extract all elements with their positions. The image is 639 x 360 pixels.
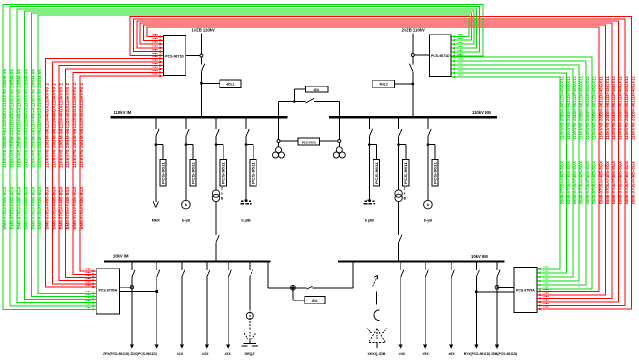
wire red RA4 (PCS-C to PCS-D comm fibre) — [140, 23, 612, 298]
wire arrows into box U3 (top-left) — [153, 35, 164, 78]
svg-text:110kV#8 28BM-9611D#48GX110kV#8: 110kV#8 28BM-9611D#48GX110kV#8 2 — [52, 82, 57, 168]
svg-text:BM8-9705A#485-8GX: BM8-9705A#485-8GX — [2, 186, 7, 229]
svg-text:110kV#8 28BM-9611D#48GX11: 110kV#8 28BM-9611D#48GX11 — [572, 75, 577, 140]
node PT2 (ring) — [338, 140, 341, 143]
svg-text:PCS-9671D: PCS-9671D — [165, 54, 184, 58]
svg-text:110kV#8 28BM-9611D#48GX110kV#8: 110kV#8 28BM-9611D#48GX110kV#8 28BM-96 — [9, 68, 14, 168]
svg-text:4DL: 4DL — [314, 88, 320, 92]
bus 110kV section I — [111, 116, 288, 118]
svg-text:110kV#8 28BM-9611D#48GX11: 110kV#8 28BM-9611D#48GX11 — [585, 75, 590, 140]
wire U1 to feeder L2 tap — [120, 291, 157, 293]
feeder bay F3 (x216, station transformer to 10kV bus I) — [215, 118, 217, 129]
cable name labels, left red bundle — [45, 82, 84, 229]
svg-text:110kV#8 28BM-9611D#48GX11: 110kV#8 28BM-9611D#48GX11 — [624, 75, 629, 140]
svg-text:BM8-9705A#485-8GX: BM8-9705A#485-8GX — [578, 161, 583, 204]
wire T2 bay riser — [412, 34, 414, 54]
svg-text:PCS-9705A: PCS-9705A — [516, 288, 535, 292]
svg-text:XHXQ JDB: XHXQ JDB — [368, 352, 386, 356]
wire node T2-a to breaker box 4DL2 — [394, 83, 412, 85]
protection device U2 (bottom-right PCS-9705A) — [514, 267, 537, 312]
svg-text:110kV#8 28BM-9611D#48GX110kV#8: 110kV#8 28BM-9611D#48GX110kV#8 28BM-96 — [16, 68, 21, 168]
bus 110kV section II — [329, 116, 497, 118]
protection device U4 (top-right PCS-9671D) — [429, 35, 451, 77]
node bridge-a — [293, 100, 296, 103]
feeder L1 x131.9 with disconnector and load arrow — [131, 263, 133, 270]
feeder bay F2 (x185.9, motor/PT circle) with disconnector, node, relay — [185, 118, 187, 129]
capacitor C1 fuse circle (dashed) — [246, 312, 253, 319]
svg-text:110kV#8 28BM-9611D#48GX110kV#8: 110kV#8 28BM-9611D#48GX110kV#8 28BM-96 — [24, 68, 29, 168]
wire red RA3 (PCS-C to PCS-D comm fibre) — [137, 21, 618, 302]
node tap L1 (ring) — [130, 286, 133, 289]
wire node T1-a to breaker box 4DL1 — [201, 82, 219, 84]
node tap R4 — [475, 290, 478, 293]
svg-text:PCS-9611: PCS-9611 — [404, 162, 408, 184]
svg-text:10kV IM: 10kV IM — [113, 253, 129, 258]
wire U2 to feeder R4 tap — [476, 291, 514, 293]
protection device U3 (top-left PCS-9671D) — [163, 36, 185, 76]
wire green GB4 (PCS-B to PCS-D comm fibre) — [451, 69, 573, 277]
capacitor bank feeder C1 (x249.8, dashed future) — [249, 263, 251, 270]
svg-text:110kV#8 28BM-9611D#48GX110kV#8: 110kV#8 28BM-9611D#48GX110kV#8 28BM-96 — [37, 68, 42, 168]
svg-text:110kV#8 28BM-9611D#48GX11: 110kV#8 28BM-9611D#48GX11 — [559, 75, 564, 140]
svg-text:110kV#8 28BM-9611D#48GX11: 110kV#8 28BM-9611D#48GX11 — [598, 75, 603, 140]
svg-text:BM8-9705A#485-8GX: BM8-9705A#485-8GX — [624, 161, 629, 204]
wire red RA1 (PCS-C to PCS-D comm fibre) — [130, 17, 631, 309]
svg-text:BM8-9705A#485-8GX: BM8-9705A#485-8GX — [24, 186, 29, 229]
svg-text:BM8-9705A#485-8GX: BM8-9705A#485-8GX — [79, 186, 84, 229]
grounding transformer GT (dashed triangle with rays) — [369, 329, 386, 343]
svg-text:BM8-9705A#485-8GX: BM8-9705A#485-8GX — [45, 186, 50, 229]
disconnector QSL (bus-tie) — [306, 98, 315, 103]
svg-text:110kV IM: 110kV IM — [114, 110, 132, 115]
wire node bridge-a to box 4DL0 — [293, 89, 295, 102]
svg-text:4DL1: 4DL1 — [226, 82, 234, 86]
svg-text:#6X: #6X — [448, 352, 455, 356]
svg-text:b-yB: b-yB — [182, 219, 191, 223]
svg-text:BM8-9705A#485-8GX: BM8-9705A#485-8GX — [52, 186, 57, 229]
svg-text:BM8-9705A#485-8GX: BM8-9705A#485-8GX — [72, 186, 77, 229]
node PT1 (ring) — [277, 140, 280, 143]
wire green GA3 (PCS-A to PCS-B comm fibre) — [17, 9, 477, 303]
svg-text:BM8-9705A#485-8GX: BM8-9705A#485-8GX — [585, 161, 590, 204]
svg-text:PCS-9611: PCS-9611 — [222, 162, 226, 184]
svg-text:BM8-9705A#485-8GX: BM8-9705A#485-8GX — [631, 161, 636, 204]
wire arrows into box U4 (top-right) — [452, 35, 463, 79]
wire relay U5 to PT2 — [320, 140, 338, 142]
wire green GA6 (PCS-A to PCS-B comm fibre) — [38, 15, 469, 293]
svg-text:110kV#8 28BM-9611D#48GX110kV#8: 110kV#8 28BM-9611D#48GX110kV#8 28BM-96 — [2, 68, 7, 168]
breaker box 4DL2 — [373, 80, 395, 88]
node tap R5 (ring) — [495, 285, 499, 289]
svg-text:PCS-9611: PCS-9611 — [252, 162, 256, 184]
feeder L3 x181.8 with disconnector and load arrow — [181, 263, 183, 270]
wire green GA4 (PCS-A to PCS-B comm fibre) — [24, 11, 474, 299]
svg-text:110kV#8 28BM-9611D#48GX110kV#8: 110kV#8 28BM-9611D#48GX110kV#8 2 — [45, 82, 50, 168]
svg-text:Z: Z — [404, 187, 406, 191]
svg-text:110kV#8 28BM-9611D#48GX110kV#8: 110kV#8 28BM-9611D#48GX110kV#8 2 — [72, 82, 77, 168]
svg-text:110kV#8 28BM-9611D#48GX11: 110kV#8 28BM-9611D#48GX11 — [605, 75, 610, 140]
bus 10kV section II — [338, 260, 505, 262]
wire red RB2 (PCS-C to PCS-A comm fibre) — [52, 62, 163, 284]
arc coil wire — [375, 291, 377, 304]
wire bus-tie horizontal right — [313, 287, 354, 289]
feeder R4 x476.3 with disconnector and load arrow — [475, 263, 477, 270]
svg-text:BM8-9705A#485-8GX: BM8-9705A#485-8GX — [598, 161, 603, 204]
disconnector QS11 — [201, 64, 204, 72]
svg-text:BM8-9705A#485-8GX: BM8-9705A#485-8GX — [611, 161, 616, 204]
svg-text:x: x — [221, 192, 223, 196]
svg-text:BM8-9705A#485-8GX: BM8-9705A#485-8GX — [572, 161, 577, 204]
svg-text:PCS-9705: PCS-9705 — [302, 140, 316, 144]
svg-text:JDB(PCS-9611D): JDB(PCS-9611D) — [491, 352, 518, 356]
svg-text:MHX: MHX — [152, 219, 161, 223]
svg-text:#5X: #5X — [422, 352, 429, 356]
wire red RA2 (PCS-C to PCS-D comm fibre) — [134, 19, 625, 306]
wire red RA6 (PCS-C to PCS-D comm fibre) — [147, 27, 599, 291]
svg-text:Z: Z — [221, 187, 223, 191]
wire node T2-CT to U4 — [414, 54, 429, 56]
svg-text:DRQZ: DRQZ — [245, 352, 256, 356]
svg-text:PCS-9611: PCS-9611 — [192, 162, 196, 184]
svg-text:PCS-9671D: PCS-9671D — [431, 54, 450, 58]
svg-text:2#ZB 110kV: 2#ZB 110kV — [402, 27, 425, 32]
wire green GA5 (PCS-A to PCS-B comm fibre) — [31, 13, 471, 296]
wire arrows into box U2 (bottom-right) — [537, 267, 548, 311]
svg-text:PCS-9611: PCS-9611 — [434, 162, 438, 184]
wire red RB3 (PCS-C to PCS-A comm fibre) — [59, 66, 163, 281]
feeder bay F7 (x427.9, motor/PT circle) with disconnector, node, relay — [427, 118, 429, 129]
svg-text:ZFX(PCS-9611D): ZFX(PCS-9611D) — [103, 352, 130, 356]
wire T1 bay riser — [200, 34, 202, 55]
svg-text:b-yB: b-yB — [424, 219, 433, 223]
svg-text:110kV IIM: 110kV IIM — [472, 110, 491, 115]
wire green GB1 (PCS-B to PCS-D comm fibre) — [451, 57, 592, 289]
cable name labels, right green bundle — [559, 75, 596, 204]
svg-text:1#ZB 110kV: 1#ZB 110kV — [192, 27, 215, 32]
svg-text:BM8-9705A#485-8GX: BM8-9705A#485-8GX — [591, 161, 596, 204]
wire green GB5 (PCS-B to PCS-D comm fibre) — [451, 73, 567, 273]
svg-text:110kV#8 28BM-9611D#48GX11: 110kV#8 28BM-9611D#48GX11 — [578, 75, 583, 140]
wire red RA5 (PCS-C to PCS-D comm fibre) — [144, 25, 606, 295]
svg-text:#3X: #3X — [224, 352, 231, 356]
svg-text:BM8-9705A#485-8GX: BM8-9705A#485-8GX — [566, 161, 571, 204]
breaker box 4DL1 — [220, 80, 241, 88]
wire bridge right riser — [338, 102, 340, 117]
feeder L2 x156.7 with disconnector and load arrow — [156, 263, 158, 270]
feeder bay F4 (x246, grounding) with disconnector, node, relay — [245, 118, 247, 129]
node T2-CT (ring) — [411, 54, 414, 57]
wire bus-tie riser to 10kV bus II — [352, 263, 354, 288]
wire U3 to node T1-CT — [186, 55, 200, 57]
wire PT1 to relay U5 — [280, 140, 298, 142]
node T1-CT (ring) — [200, 54, 203, 57]
svg-text:110kV#8 28BM-9611D#48GX11: 110kV#8 28BM-9611D#48GX11 — [611, 75, 616, 140]
svg-text:110kV#8 28BM-9611D#48GX110kV#8: 110kV#8 28BM-9611D#48GX110kV#8 2 — [58, 82, 63, 168]
wire bus-tie drop from 10kV bus I — [267, 263, 269, 288]
wire green GB2 (PCS-B to PCS-D comm fibre) — [451, 61, 586, 285]
svg-text:4DL2: 4DL2 — [379, 83, 387, 87]
feeder R1 x400.7 with disconnector and load arrow — [400, 263, 402, 270]
svg-text:BM8-9705A#485-8GX: BM8-9705A#485-8GX — [37, 186, 42, 229]
svg-text:110kV#8 28BM-9611D#48GX110kV#8: 110kV#8 28BM-9611D#48GX110kV#8 2 — [65, 82, 70, 168]
svg-text:BM8-9705A#485-8GX: BM8-9705A#485-8GX — [65, 186, 70, 229]
node tie-a — [291, 286, 294, 289]
svg-text:BYX(PCS-9611D): BYX(PCS-9611D) — [464, 352, 491, 356]
feeder R2 x425.2 with disconnector and load arrow — [424, 263, 426, 270]
wire U2 to feeder R5 tap — [497, 286, 514, 288]
breaker box 4DLT — [305, 296, 325, 303]
feeder L4 x206.8 with disconnector and load arrow — [206, 263, 208, 270]
wire red RB5 (PCS-C to PCS-A comm fibre) — [73, 73, 164, 275]
wire red RB4 (PCS-C to PCS-A comm fibre) — [66, 69, 164, 277]
feeder bay F1 (x155.8, load arrow) with disconnector, node, relay PCS-9611 — [155, 118, 157, 129]
capacitor C1 element (dashed rays + plates) — [249, 321, 251, 330]
relay U5 (PCS-9705 bus-tie) — [298, 138, 320, 145]
svg-text:10kV IIM: 10kV IIM — [471, 254, 488, 259]
svg-text:ZDX(PCS-9611D): ZDX(PCS-9611D) — [130, 352, 157, 356]
node tap L2 — [155, 290, 158, 293]
voltage transformer PT2 (3-winding) — [338, 143, 340, 147]
svg-text:BM8-9705A#485-8GX: BM8-9705A#485-8GX — [58, 186, 63, 229]
svg-text:110kV#8 28BM-9611D#48GX110kV#8: 110kV#8 28BM-9611D#48GX110kV#8 2 — [79, 82, 84, 168]
svg-text:110kV#8 28BM-9611D#48GX110kV#8: 110kV#8 28BM-9611D#48GX110kV#8 28BM-96 — [31, 68, 36, 168]
bus 10kV section I — [104, 260, 270, 262]
node T1-a — [200, 82, 203, 85]
svg-text:PCS-9705A: PCS-9705A — [98, 288, 117, 292]
svg-text:110kV#8 28BM-9611D#48GX11: 110kV#8 28BM-9611D#48GX11 — [631, 75, 636, 140]
svg-text:BM8-9705A#485-8GX: BM8-9705A#485-8GX — [9, 186, 14, 229]
wire bridge top — [279, 101, 306, 103]
svg-text:4DL: 4DL — [312, 299, 318, 303]
disconnector QST (bus-tie 10kV) — [306, 286, 312, 289]
wire node tie-a to box 4DLT — [292, 288, 294, 300]
wire U1 to feeder L1 tap — [120, 286, 132, 288]
svg-text:BM8-9705A#485-8GX: BM8-9705A#485-8GX — [559, 161, 564, 204]
disconnector QS21 — [410, 64, 413, 72]
wire PT2 drop — [338, 118, 340, 139]
wire red RB1 (PCS-C to PCS-A comm fibre) — [45, 59, 163, 288]
svg-text:110kV#8 28BM-9611D#48GX11: 110kV#8 28BM-9611D#48GX11 — [618, 75, 623, 140]
svg-text:b jdB: b jdB — [365, 219, 375, 223]
svg-text:#4X: #4X — [399, 352, 406, 356]
svg-text:110kV#8 28BM-9611D#48GX11: 110kV#8 28BM-9611D#48GX11 — [566, 75, 571, 140]
wire bridge left riser — [278, 102, 280, 117]
wire bus-tie horizontal left — [268, 287, 306, 289]
wire arrows into box U1 (bottom-left) — [86, 269, 96, 311]
arc coil feeder (x376.3) dashed disconnector — [373, 275, 378, 286]
feeder R5 x497.0 with disconnector and load arrow — [496, 263, 498, 270]
wire green GB6 (PCS-B to PCS-D comm fibre) — [451, 77, 560, 269]
svg-text:PCS-9611: PCS-9611 — [161, 162, 165, 184]
wire green GA1 (PCS-A to PCS-B comm fibre) — [3, 4, 483, 309]
breaker box 4DL0 — [305, 86, 328, 92]
wire PT1 drop — [278, 118, 280, 139]
svg-text:110kV#8 28BM-9611D#48GX11: 110kV#8 28BM-9611D#48GX11 — [591, 75, 596, 140]
protection device U1 (bottom-left PCS-9705A) — [96, 269, 119, 314]
cable name labels, right red bundle — [598, 75, 635, 204]
svg-text:#1X: #1X — [177, 352, 184, 356]
arc suppression coil L1 (C-arc) — [374, 310, 379, 321]
feeder L5 x228.2 with disconnector and load arrow — [227, 263, 229, 270]
node T2-a — [411, 83, 414, 86]
svg-text:b jdB: b jdB — [241, 219, 251, 223]
voltage transformer PT1 (3-winding) — [278, 143, 280, 147]
wire red RB6 (PCS-C to PCS-A comm fibre) — [80, 76, 164, 271]
wire green GA2 (PCS-A to PCS-B comm fibre) — [10, 7, 480, 306]
feeder R3 x451.2 with disconnector and load arrow — [450, 263, 452, 270]
svg-text:BM8-9705A#485-8GX: BM8-9705A#485-8GX — [618, 161, 623, 204]
svg-text:x: x — [404, 192, 406, 196]
svg-text:PCS-9611: PCS-9611 — [375, 162, 379, 184]
feeder bay F6 (x398.6, station transformer to 10kV bus II) — [398, 118, 400, 129]
cable name labels, left green bundle — [2, 68, 42, 229]
svg-text:BM8-9705A#485-8GX: BM8-9705A#485-8GX — [16, 186, 21, 229]
feeder bay F5 (x369.3, grounding) with disconnector, node, relay — [368, 118, 370, 129]
wire green GB3 (PCS-B to PCS-D comm fibre) — [451, 65, 579, 281]
svg-text:#2X: #2X — [202, 352, 209, 356]
svg-text:BM8-9705A#485-8GX: BM8-9705A#485-8GX — [31, 186, 36, 229]
svg-text:BM8-9705A#485-8GX: BM8-9705A#485-8GX — [605, 161, 610, 204]
